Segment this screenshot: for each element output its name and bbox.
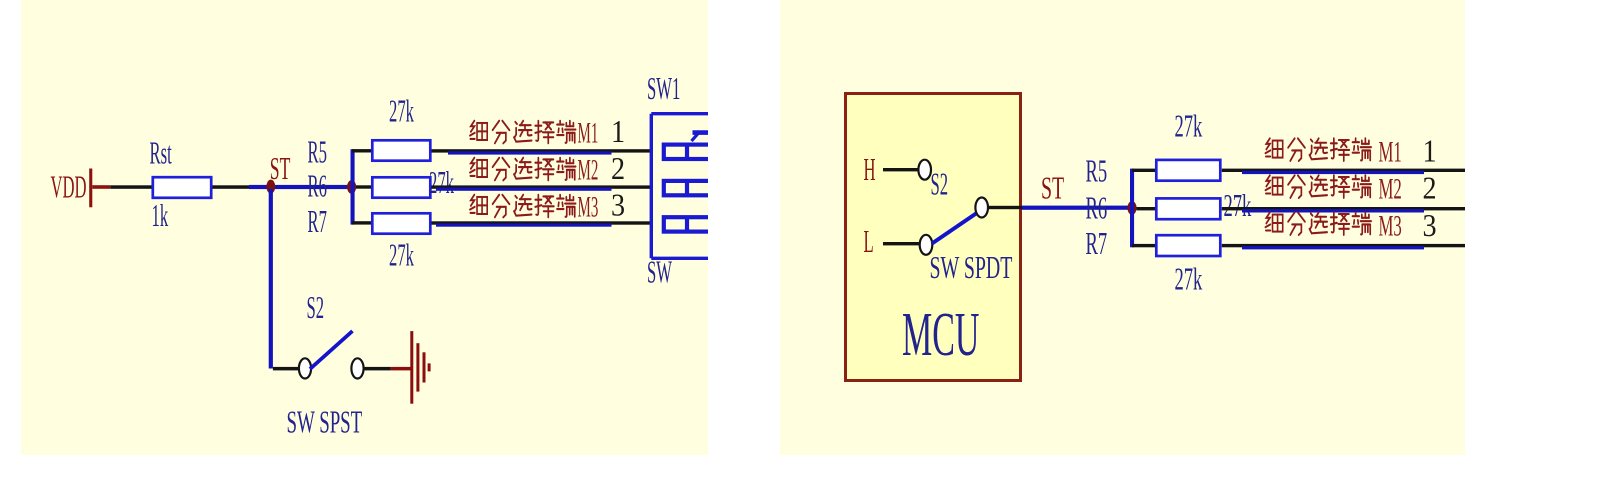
wire M2 row (blue overlay) xyxy=(436,188,612,191)
resistor Rst xyxy=(153,177,211,198)
svg-text:ST: ST xyxy=(270,150,291,186)
svg-text:27k: 27k xyxy=(429,164,454,200)
net label 细分选择端 M1 right xyxy=(1265,138,1371,161)
resistor R6 xyxy=(372,177,430,197)
wire M2 row right (blue overlay) xyxy=(1242,209,1424,212)
wire M3 row right (blue overlay) xyxy=(1242,246,1424,249)
wire stub to R7 (black) xyxy=(352,221,372,224)
svg-text:3: 3 xyxy=(611,187,625,223)
svg-text:M1: M1 xyxy=(578,117,599,150)
resistor R7 right xyxy=(1156,235,1220,256)
wire contact B to ground (black) xyxy=(364,367,391,371)
switch S2 contact L (ellipse) xyxy=(920,235,933,255)
svg-text:Rst: Rst xyxy=(150,135,172,171)
power port VDD bar xyxy=(89,169,92,208)
wire stub to R6 (black) xyxy=(356,185,372,188)
svg-text:1: 1 xyxy=(1423,133,1437,169)
wire H to contact (black) xyxy=(883,168,919,171)
svg-text:R5: R5 xyxy=(1086,154,1108,189)
svg-text:27k: 27k xyxy=(389,93,414,129)
DIP switch SW1 box xyxy=(651,114,720,259)
svg-text:L: L xyxy=(864,223,874,259)
node dot (right junction) xyxy=(1127,201,1136,215)
svg-text:2: 2 xyxy=(1423,170,1437,206)
node ST dot xyxy=(266,180,275,194)
svg-text:R7: R7 xyxy=(308,203,328,239)
svg-text:SW: SW xyxy=(647,254,673,290)
svg-text:R7: R7 xyxy=(1086,226,1108,261)
wire ST down to switch (blue vertical) xyxy=(269,189,273,369)
right schematic panel background xyxy=(780,0,1465,455)
wire M1 row right (black) xyxy=(1222,169,1470,172)
svg-text:M2: M2 xyxy=(578,154,599,187)
wire VDD to Rst (black) xyxy=(110,185,151,189)
svg-text:R6: R6 xyxy=(308,168,327,204)
svg-text:H: H xyxy=(864,151,876,187)
wire stub to R6 right (black) xyxy=(1137,207,1156,210)
svg-text:R5: R5 xyxy=(308,133,327,169)
wire resistor bus vertical (blue) xyxy=(351,149,355,224)
svg-text:SW SPST: SW SPST xyxy=(287,404,363,439)
svg-text:M2: M2 xyxy=(1379,173,1402,206)
svg-text:1: 1 xyxy=(611,113,625,149)
DIP switch slider 1 xyxy=(664,145,712,159)
wire common to box edge (black) xyxy=(988,206,1022,209)
svg-text:S2: S2 xyxy=(307,289,325,325)
wire ST segment (blue) xyxy=(249,185,353,189)
svg-text:27k: 27k xyxy=(1175,261,1203,296)
wire M2 row right (black) xyxy=(1222,207,1470,210)
svg-text:1k: 1k xyxy=(152,197,169,233)
rotated digit 1 marking xyxy=(692,133,710,141)
wire M3 row (blue overlay) xyxy=(436,224,612,227)
svg-text:R6: R6 xyxy=(1086,190,1108,225)
resistor R6 right xyxy=(1156,198,1220,219)
svg-text:ST: ST xyxy=(1041,170,1064,206)
svg-text:27k: 27k xyxy=(1175,108,1203,143)
svg-text:M3: M3 xyxy=(578,191,599,224)
wire stub to R7 right (black) xyxy=(1132,244,1155,247)
ground symbol bar 2 xyxy=(416,343,419,391)
svg-text:27k: 27k xyxy=(1224,188,1252,223)
net label 细分选择端 M3 xyxy=(470,195,576,218)
wire L to contact (black) xyxy=(883,242,920,245)
wire M3 row (black) xyxy=(432,221,652,224)
net label 细分选择端 M2 xyxy=(470,158,576,181)
svg-text:M3: M3 xyxy=(1379,210,1402,243)
switch S2 common contact (ellipse) xyxy=(975,198,988,218)
resistor R7 xyxy=(372,213,430,233)
svg-text:M1: M1 xyxy=(1379,136,1402,169)
svg-text:3: 3 xyxy=(1423,207,1437,243)
wire VDD stub (dark red) xyxy=(92,185,110,189)
wire M1 row (black) xyxy=(432,149,652,152)
svg-text:VDD: VDD xyxy=(51,169,87,205)
svg-text:SW SPDT: SW SPDT xyxy=(930,249,1013,285)
switch S2 contact B (ellipse) xyxy=(351,358,363,378)
ground symbol bar 4 xyxy=(428,363,431,371)
MCU box xyxy=(846,94,1021,381)
switch S2 contact A (ellipse) xyxy=(299,358,311,378)
switch S2 arm (blue) xyxy=(310,331,353,369)
wire M1 row (blue overlay) xyxy=(448,151,612,154)
svg-text:SW1: SW1 xyxy=(647,70,680,106)
svg-text:2: 2 xyxy=(611,151,625,187)
wire box edge to node (blue) xyxy=(1022,206,1132,210)
wire M1 row right (blue overlay) xyxy=(1242,171,1424,174)
svg-text:27k: 27k xyxy=(389,237,414,273)
wire resistor bus vertical right (blue) xyxy=(1130,169,1134,248)
switch S2 contact H (ellipse) xyxy=(918,160,931,180)
resistor R5 xyxy=(372,140,430,160)
left schematic panel background xyxy=(21,0,708,455)
wire stub to R5 (black) xyxy=(352,149,372,152)
net label 细分选择端 M1 xyxy=(470,121,576,144)
wire Rst to ST (black) xyxy=(213,185,250,189)
ground symbol bar 3 xyxy=(423,352,426,382)
ground symbol bar 1 xyxy=(410,331,413,404)
wire to switch contact (black) xyxy=(273,367,299,371)
wire ground stub (dark red) xyxy=(391,367,411,371)
DIP switch slider 3 xyxy=(664,217,712,231)
net label 细分选择端 M2 right xyxy=(1265,175,1371,198)
net label 细分选择端 M3 right xyxy=(1265,212,1371,235)
switch S2 arm SPDT (blue) xyxy=(932,213,978,244)
resistor R5 right xyxy=(1156,160,1220,181)
svg-text:MCU: MCU xyxy=(902,299,979,369)
wire M3 row right (black) xyxy=(1222,244,1470,247)
wire M2 row (black) xyxy=(432,185,652,188)
svg-text:S2: S2 xyxy=(931,166,949,202)
node R-junction dot xyxy=(347,180,356,194)
DIP switch slider 2 xyxy=(664,181,712,195)
wire stub to R5 right (black) xyxy=(1132,169,1155,172)
